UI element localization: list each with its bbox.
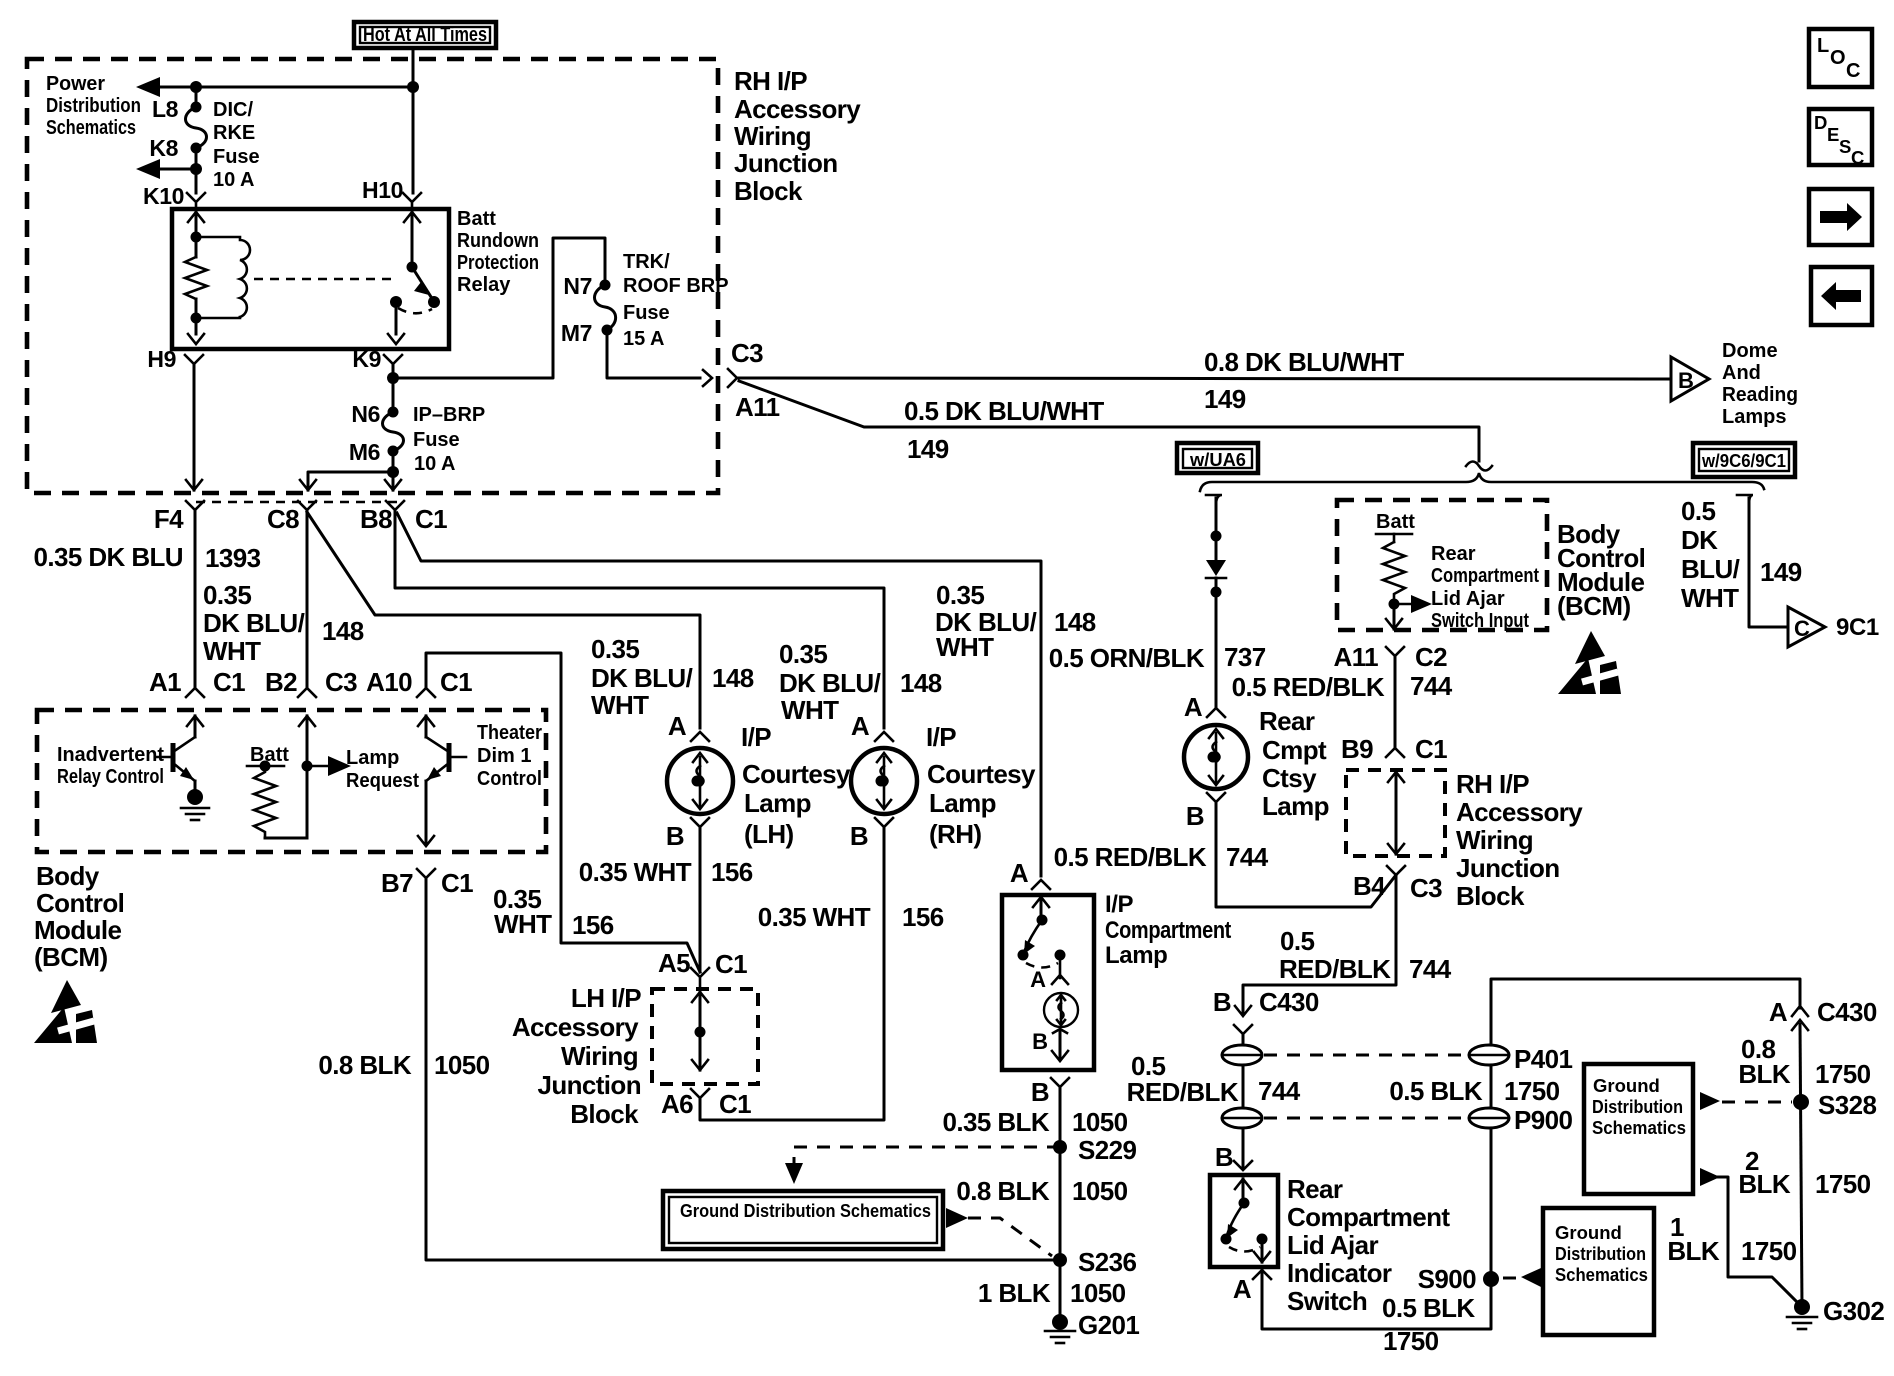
label A5 C1 <box>658 948 747 979</box>
label RH I/P Accessory Wiring Junction Block <box>734 66 861 206</box>
svg-text:Batt: Batt <box>250 744 289 766</box>
svg-text:Switch Input: Switch Input <box>1431 610 1529 632</box>
svg-text:P401: P401 <box>1514 1044 1572 1074</box>
label 0.35 DK BLU/WHT 148 <box>203 580 364 666</box>
svg-text:Request: Request <box>346 770 419 792</box>
svg-text:1750: 1750 <box>1815 1169 1871 1199</box>
label 2 BLK 1750 <box>1738 1146 1870 1199</box>
label 0.5 RED/BLK 744 (A11) <box>1232 671 1453 702</box>
label LH I/P Accessory Wiring Junction Block <box>512 983 641 1129</box>
label 0.35 WHT 156 (theater dim) <box>493 884 614 940</box>
fuse TRK/ROOF BRP Fuse 15A <box>595 280 616 336</box>
svg-text:1750: 1750 <box>1741 1236 1797 1266</box>
lamp I/P Courtesy Lamp (LH) <box>667 732 733 814</box>
wire horizontal branch to power distribution <box>143 86 413 89</box>
svg-text:A: A <box>1233 1274 1252 1304</box>
svg-text:B: B <box>1031 1077 1049 1107</box>
svg-text:0.35: 0.35 <box>203 580 251 610</box>
svg-text:0.5: 0.5 <box>1681 496 1715 526</box>
wire main 0.5 BLK 1750 riser <box>1491 979 1800 1279</box>
diode in ORN/BLK wire <box>1206 560 1226 578</box>
svg-text:A11: A11 <box>1334 642 1379 672</box>
junction block connector row dash line <box>196 501 400 504</box>
svg-text:C1: C1 <box>1415 734 1447 764</box>
connector A1/C1 terminal <box>186 688 204 697</box>
label B7 C1 <box>381 868 473 898</box>
label 0.8 BLK 1050 <box>956 1176 1127 1206</box>
svg-text:Body: Body <box>36 861 100 891</box>
svg-text:BLK: BLK <box>1738 1169 1790 1199</box>
svg-text:1050: 1050 <box>1072 1176 1128 1206</box>
svg-text:A: A <box>668 711 687 741</box>
svg-text:WHT: WHT <box>781 695 839 725</box>
svg-text:Hot At All Times: Hot At All Times <box>363 24 487 46</box>
svg-text:BLU/: BLU/ <box>1681 554 1740 584</box>
svg-text:Indicator: Indicator <box>1287 1258 1392 1288</box>
connector P401 <box>1469 1044 1572 1074</box>
wire theater dim to B7 <box>425 781 428 845</box>
label 0.35 DK BLU/WHT 148 (LH lamp) <box>591 634 754 720</box>
svg-text:Dim 1: Dim 1 <box>477 745 531 767</box>
svg-text:Block: Block <box>1456 881 1525 911</box>
splice S236 <box>1053 1253 1067 1267</box>
svg-text:0.35: 0.35 <box>936 580 984 610</box>
label N6 M6 IP-BRP Fuse 10 A <box>349 401 485 475</box>
svg-text:D: D <box>1814 112 1827 133</box>
label 0.35 DK BLU/WHT 148 (RH lamp) <box>779 639 942 725</box>
splice S900 <box>1483 1271 1499 1287</box>
svg-text:Distribution: Distribution <box>1592 1096 1683 1117</box>
svg-text:LH I/P: LH I/P <box>571 983 641 1013</box>
svg-text:C1: C1 <box>719 1089 751 1119</box>
svg-text:0.5 RED/BLK: 0.5 RED/BLK <box>1232 672 1385 702</box>
wire H9 to F4 with arrow at dashed border <box>193 364 196 490</box>
label Rear Compartment Lid Ajar Indicator Switch <box>1287 1174 1450 1316</box>
wire lid ajar input down to A11 <box>1393 604 1396 629</box>
connector B4/C3 terminal <box>1387 866 1405 875</box>
svg-text:F4: F4 <box>154 504 184 534</box>
svg-text:w/9C6/9C1: w/9C6/9C1 <box>1701 450 1786 471</box>
wire K9 down to junction <box>392 364 395 412</box>
connector C8/C1 terminal <box>298 501 316 510</box>
svg-text:744: 744 <box>1258 1076 1301 1106</box>
svg-text:C1: C1 <box>440 667 472 697</box>
label A C430 <box>1769 997 1877 1027</box>
connector A10/C1 terminal <box>417 688 435 697</box>
label Body Control Module (BCM) <box>34 861 124 972</box>
label L8 K8 DIC/RKE Fuse 10 A <box>149 96 259 191</box>
svg-text:0.5 ORN/BLK: 0.5 ORN/BLK <box>1049 643 1205 673</box>
svg-text:0.35 WHT: 0.35 WHT <box>579 857 692 887</box>
svg-text:Power: Power <box>46 73 105 95</box>
flag B to Dome And Reading Lamps <box>1671 357 1709 401</box>
svg-text:1 BLK: 1 BLK <box>978 1278 1051 1308</box>
label RH I/P Accessory Wiring Junction Block (right) <box>1456 769 1583 911</box>
label Batt Rundown Protection Relay <box>457 208 539 296</box>
connector F4/C1 terminal <box>186 501 204 510</box>
label 0.5 RED/BLK 744 (C430-P) <box>1127 1051 1301 1107</box>
BCM dashed box <box>37 710 546 852</box>
svg-text:Fuse: Fuse <box>213 146 260 168</box>
svg-text:Rear: Rear <box>1259 706 1315 736</box>
svg-text:(BCM): (BCM) <box>1557 591 1631 621</box>
svg-text:A10: A10 <box>366 667 412 697</box>
svg-text:Rear: Rear <box>1431 543 1476 565</box>
svg-text:WHT: WHT <box>494 909 552 939</box>
svg-text:RED/BLK: RED/BLK <box>1127 1077 1239 1107</box>
svg-text:0.5 BLK: 0.5 BLK <box>1382 1293 1475 1323</box>
svg-text:G201: G201 <box>1078 1310 1139 1340</box>
svg-text:0.35 BLK: 0.35 BLK <box>943 1107 1050 1137</box>
label 0.35 BLK 1050 <box>943 1107 1128 1137</box>
svg-text:0.8 DK BLU/WHT: 0.8 DK BLU/WHT <box>1204 347 1404 377</box>
svg-text:Theater: Theater <box>477 722 542 744</box>
svg-text:RH I/P: RH I/P <box>734 66 807 96</box>
label 0.8 DK BLU/WHT 149 <box>1204 347 1404 414</box>
svg-text:B: B <box>1186 801 1204 831</box>
svg-text:149: 149 <box>1760 557 1802 587</box>
connector H10 terminal <box>403 193 421 209</box>
connector K10 terminal <box>187 193 205 209</box>
connector B2/C3 terminal <box>298 688 316 697</box>
svg-text:L: L <box>1817 35 1829 57</box>
svg-text:Lamp: Lamp <box>744 788 811 818</box>
svg-text:Schematics: Schematics <box>1592 1117 1686 1138</box>
svg-text:Accessory: Accessory <box>734 94 861 124</box>
svg-text:B4: B4 <box>1353 871 1386 901</box>
svg-text:E: E <box>1827 124 1839 145</box>
label 0.8 BLK 1050 (B7 ground) <box>318 1050 489 1080</box>
svg-text:Ground Distribution Schematics: Ground Distribution Schematics <box>680 1200 931 1221</box>
arrow to Power Distribution Schematics (lower) <box>136 159 160 179</box>
box Ground Distribution Schematics (lower right) <box>1543 1208 1654 1335</box>
wire battery feed from Hot box down to H10 <box>412 48 415 193</box>
svg-text:B2: B2 <box>265 667 297 697</box>
svg-text:Relay Control: Relay Control <box>57 766 164 788</box>
svg-text:744: 744 <box>1226 842 1269 872</box>
resistor lid ajar input <box>1376 534 1412 604</box>
node junction dot at feed/branch <box>407 81 419 93</box>
switch box Rear Compartment Lid Ajar Indicator Switch <box>1210 1175 1278 1267</box>
connector C3/A11 terminal <box>728 369 737 387</box>
resistor Batt pull-up <box>247 744 307 838</box>
splice S229 <box>1053 1140 1067 1154</box>
connector B9/C1 terminal <box>1386 748 1404 757</box>
ground BCM internal <box>181 781 209 820</box>
wire A C430 to G302 0.8 BLK 1750 <box>1800 1024 1802 1307</box>
svg-text:H9: H9 <box>147 346 176 372</box>
flag C to 9C1 <box>1788 607 1879 647</box>
dashed link to P401 <box>1264 1054 1466 1057</box>
svg-text:0.35 WHT: 0.35 WHT <box>758 902 871 932</box>
RH I/P junction block dashed box (right) <box>1346 770 1445 856</box>
wire mechanical link dashed <box>254 278 398 281</box>
connector B terminal compartment lamp <box>1051 1078 1069 1087</box>
svg-text:B: B <box>1678 368 1694 393</box>
svg-text:S229: S229 <box>1078 1135 1136 1165</box>
svg-text:744: 744 <box>1409 954 1452 984</box>
svg-text:Ctsy: Ctsy <box>1262 763 1317 793</box>
connector P900 <box>1469 1105 1572 1135</box>
svg-text:B: B <box>1213 987 1231 1017</box>
svg-text:Schematics: Schematics <box>1555 1264 1648 1285</box>
connector B terminal lid switch <box>1234 1161 1252 1170</box>
wire w/UA6 drop hook <box>1206 495 1222 505</box>
Hot At All Times box <box>354 22 496 48</box>
relay box Batt Rundown Protection Relay <box>172 209 449 349</box>
label Body Control Module (BCM) right <box>1557 519 1645 621</box>
svg-text:M7: M7 <box>561 320 592 346</box>
dashed link to P900 <box>1264 1117 1466 1120</box>
label 0.5 RED/BLK 744 (rear lamp B) <box>1054 842 1269 872</box>
svg-text:744: 744 <box>1410 671 1453 701</box>
connector H9 terminal <box>185 355 203 371</box>
svg-text:156: 156 <box>902 902 944 932</box>
svg-text:Block: Block <box>570 1099 639 1129</box>
svg-text:B9: B9 <box>1341 734 1373 764</box>
lamp bulb compartment internal <box>1032 993 1078 1061</box>
nav box arrow left <box>1811 267 1872 325</box>
wire 9C1 drop hook <box>1737 495 1753 505</box>
svg-text:Wiring: Wiring <box>734 121 811 151</box>
wire C430 to P-connectors <box>1242 1034 1245 1169</box>
wire TRK fuse output to C3 with arrow <box>607 330 700 378</box>
label B C430 <box>1213 987 1319 1017</box>
svg-text:M6: M6 <box>349 439 380 465</box>
svg-text:737: 737 <box>1224 642 1266 672</box>
svg-text:Accessory: Accessory <box>1456 797 1583 827</box>
label 0.5 BLK 1750 <box>1382 1293 1475 1356</box>
BCM dashed box rear compartment lid ajar switch input <box>1337 500 1547 630</box>
wire rear lamp B to B4 0.5 RED/BLK 744 <box>1207 793 1225 802</box>
label 0.35 WHT 156 (LH) <box>579 857 753 887</box>
svg-text:Accessory: Accessory <box>512 1012 639 1042</box>
svg-text:148: 148 <box>712 663 754 693</box>
node K8/arrow tee dot <box>190 163 202 175</box>
wire relay exit arrow left <box>188 334 204 344</box>
ground G302 <box>1787 1296 1884 1329</box>
svg-text:I/P: I/P <box>741 722 771 752</box>
arrow reference from lower box to S900 <box>1503 1268 1541 1287</box>
svg-text:Wiring: Wiring <box>1456 825 1533 855</box>
svg-text:156: 156 <box>572 910 614 940</box>
svg-text:DK BLU/: DK BLU/ <box>203 608 305 638</box>
connector A terminal lid switch <box>1253 1270 1271 1279</box>
svg-text:TRK/: TRK/ <box>623 251 670 273</box>
svg-text:Distribution: Distribution <box>1555 1243 1646 1264</box>
label 1 BLK 1750 <box>1667 1212 1796 1266</box>
svg-text:A5: A5 <box>658 948 690 978</box>
label Rear Cmpt Ctsy Lamp <box>1259 706 1329 821</box>
wire B8 to RH courtesy lamp feed <box>395 510 884 728</box>
svg-text:Junction: Junction <box>1456 853 1560 883</box>
label 0.5 DK BLU/WHT 149 <box>904 396 1104 464</box>
svg-text:Junction: Junction <box>734 148 838 178</box>
label B9 C1 <box>1341 734 1447 764</box>
svg-text:C3: C3 <box>1410 873 1442 903</box>
connector B7/C1 terminal <box>417 869 435 878</box>
svg-text:A: A <box>851 711 870 741</box>
svg-text:1750: 1750 <box>1815 1059 1871 1089</box>
svg-text:Schematics: Schematics <box>46 117 136 139</box>
node L8 branch dot <box>190 81 202 93</box>
wire F4 to A1, 0.35 DK BLU 1393 <box>194 510 197 688</box>
svg-text:Dome: Dome <box>1722 340 1778 362</box>
label 0.35 DK BLU 1393 <box>34 542 261 573</box>
label I/P Courtesy Lamp (RH) <box>926 722 1036 849</box>
svg-text:0.8 BLK: 0.8 BLK <box>318 1050 411 1080</box>
svg-text:P900: P900 <box>1514 1105 1572 1135</box>
svg-text:S236: S236 <box>1078 1247 1136 1277</box>
svg-text:1050: 1050 <box>1072 1107 1128 1137</box>
connector A terminal compartment lamp <box>1032 880 1050 889</box>
label Rear Compartment Lid Ajar Switch Input <box>1431 543 1539 632</box>
svg-text:B: B <box>1032 1029 1048 1054</box>
svg-text:1750: 1750 <box>1383 1326 1439 1356</box>
svg-text:RED/BLK: RED/BLK <box>1279 954 1391 984</box>
svg-text:N7: N7 <box>563 273 592 299</box>
svg-text:C430: C430 <box>1817 997 1877 1027</box>
svg-text:1393: 1393 <box>205 543 261 573</box>
svg-text:A6: A6 <box>661 1089 693 1119</box>
svg-text:Cmpt: Cmpt <box>1262 735 1327 765</box>
wire relay switch common from H10 <box>404 212 420 222</box>
svg-text:A1: A1 <box>149 667 181 697</box>
svg-text:K10: K10 <box>143 183 184 209</box>
fuse IP-BRP Fuse 10A <box>383 407 404 457</box>
reference dashed to S229 <box>794 1147 1060 1165</box>
wire RH lamp B down to A6 path <box>875 818 893 827</box>
svg-text:C1: C1 <box>715 949 747 979</box>
svg-text:0.5: 0.5 <box>1280 926 1314 956</box>
connector A6/C1 terminal <box>691 1089 709 1098</box>
label 0.5 DK BLU/WHT 149 (9C1) <box>1681 496 1802 613</box>
svg-text:Batt: Batt <box>457 208 496 230</box>
wire relay output leg <box>395 302 398 334</box>
label 0.35 DK BLU/WHT 148 (compartment lamp) <box>935 580 1096 662</box>
svg-text:Block: Block <box>734 176 803 206</box>
label 1 BLK 1050 <box>978 1278 1126 1308</box>
svg-text:Rundown: Rundown <box>457 230 539 252</box>
svg-text:C2: C2 <box>1415 642 1447 672</box>
svg-text:Lamp: Lamp <box>1105 942 1167 969</box>
wire B4 to C430 0.5 RED/BLK 744 <box>1243 875 1396 1014</box>
svg-text:C430: C430 <box>1259 987 1319 1017</box>
lamp Rear Cmpt Ctsy Lamp <box>1184 708 1248 789</box>
svg-text:0.5 DK BLU/WHT: 0.5 DK BLU/WHT <box>904 396 1104 426</box>
box Ground Distribution Schematics (lower left) <box>663 1191 943 1249</box>
brace grouping <box>1200 473 1764 491</box>
svg-text:RKE: RKE <box>213 122 255 144</box>
svg-text:H10: H10 <box>362 177 403 203</box>
svg-text:C1: C1 <box>213 667 245 697</box>
coil relay winding <box>196 237 250 318</box>
svg-text:Switch: Switch <box>1287 1286 1367 1316</box>
svg-text:DK BLU/: DK BLU/ <box>591 663 693 693</box>
svg-text:0.35 DK BLU: 0.35 DK BLU <box>34 542 183 572</box>
switch lid ajar internal <box>1221 1179 1271 1262</box>
svg-text:WHT: WHT <box>936 632 994 662</box>
svg-text:Protection: Protection <box>457 252 539 274</box>
svg-text:B8: B8 <box>360 504 392 534</box>
svg-text:S900: S900 <box>1418 1264 1476 1294</box>
svg-text:156: 156 <box>711 857 753 887</box>
svg-text:RH I/P: RH I/P <box>1456 769 1529 799</box>
power distribution junction block dashed box <box>27 59 718 493</box>
svg-text:(BCM): (BCM) <box>34 942 108 972</box>
svg-text:Batt: Batt <box>1376 511 1415 533</box>
svg-text:Inadvertent: Inadvertent <box>57 744 164 766</box>
svg-text:WHT: WHT <box>1681 583 1739 613</box>
label 0.8 BLK 1750 <box>1738 1034 1870 1089</box>
wire A11 to B9 0.5 RED/BLK 744 <box>1394 656 1397 748</box>
svg-text:(LH): (LH) <box>744 819 794 849</box>
svg-text:0.35: 0.35 <box>591 634 639 664</box>
svg-text:B7: B7 <box>381 868 413 898</box>
svg-text:A: A <box>1184 692 1203 722</box>
svg-text:(RH): (RH) <box>929 819 981 849</box>
svg-text:Courtesy: Courtesy <box>742 759 851 789</box>
svg-text:Junction: Junction <box>537 1070 641 1100</box>
label A6 C1 <box>661 1089 751 1119</box>
svg-text:O: O <box>1830 47 1846 69</box>
wire 0.8 DK BLU/WHT 149 to dome lamps <box>737 378 1671 379</box>
arrow reference 2 BLK wire <box>1700 1168 1802 1307</box>
label 0.5 ORN/BLK 737 <box>1049 642 1266 673</box>
label 0.5 RED/BLK 744 (B4-C430) <box>1279 926 1452 984</box>
nav box arrow right <box>1809 189 1872 245</box>
grommet pass-through lower <box>1222 1108 1262 1128</box>
svg-text:10 A: 10 A <box>213 169 255 191</box>
svg-text:S328: S328 <box>1818 1090 1876 1120</box>
svg-text:1050: 1050 <box>1070 1278 1126 1308</box>
svg-text:148: 148 <box>1054 607 1096 637</box>
wire compartment lamp B to G201 <box>1059 1087 1062 1322</box>
label 0.35 WHT 156 (RH) <box>758 902 944 932</box>
connector K9 terminal <box>384 355 402 372</box>
label C3 A11 <box>731 338 780 422</box>
wire M6 down and branch to C8 <box>392 451 395 490</box>
wire K8 to K10 <box>195 148 198 193</box>
transistor Inadvertent Relay Control <box>187 716 203 726</box>
lamp box I/P Compartment Lamp <box>1002 895 1094 1070</box>
splice S328 <box>1793 1094 1809 1110</box>
label 0.5 BLK 1750 (riser) <box>1389 1076 1559 1106</box>
svg-text:ROOF BRP: ROOF BRP <box>623 275 729 297</box>
svg-text:B: B <box>666 821 684 851</box>
wire relay coil left leg with entry arrow <box>188 212 204 222</box>
label B4 C3 <box>1353 871 1442 903</box>
nav box LOC <box>1809 29 1872 87</box>
wire B8 diagonal to I/P compartment lamp feed <box>397 513 1041 876</box>
arrow lid ajar switch input <box>1389 599 1400 610</box>
svg-text:C: C <box>1851 147 1864 168</box>
svg-text:Compartment: Compartment <box>1287 1202 1450 1232</box>
svg-text:IP–BRP: IP–BRP <box>413 404 485 426</box>
svg-text:WHT: WHT <box>591 690 649 720</box>
svg-text:0.5 BLK: 0.5 BLK <box>1389 1076 1482 1106</box>
ground G201 <box>1045 1310 1139 1343</box>
svg-text:Lamps: Lamps <box>1722 406 1786 428</box>
wire B7 ground 0.8 BLK to S236 <box>426 878 1060 1260</box>
svg-text:1750: 1750 <box>1504 1076 1560 1106</box>
connector B8/C1 terminal <box>386 501 404 510</box>
svg-text:0.5 RED/BLK: 0.5 RED/BLK <box>1054 842 1207 872</box>
wire 0.5 DK BLU/WHT 149 to 9C1 <box>1749 498 1786 627</box>
svg-text:L8: L8 <box>152 96 179 122</box>
wire end squiggle <box>1466 462 1492 471</box>
resistor relay internal <box>185 257 207 299</box>
